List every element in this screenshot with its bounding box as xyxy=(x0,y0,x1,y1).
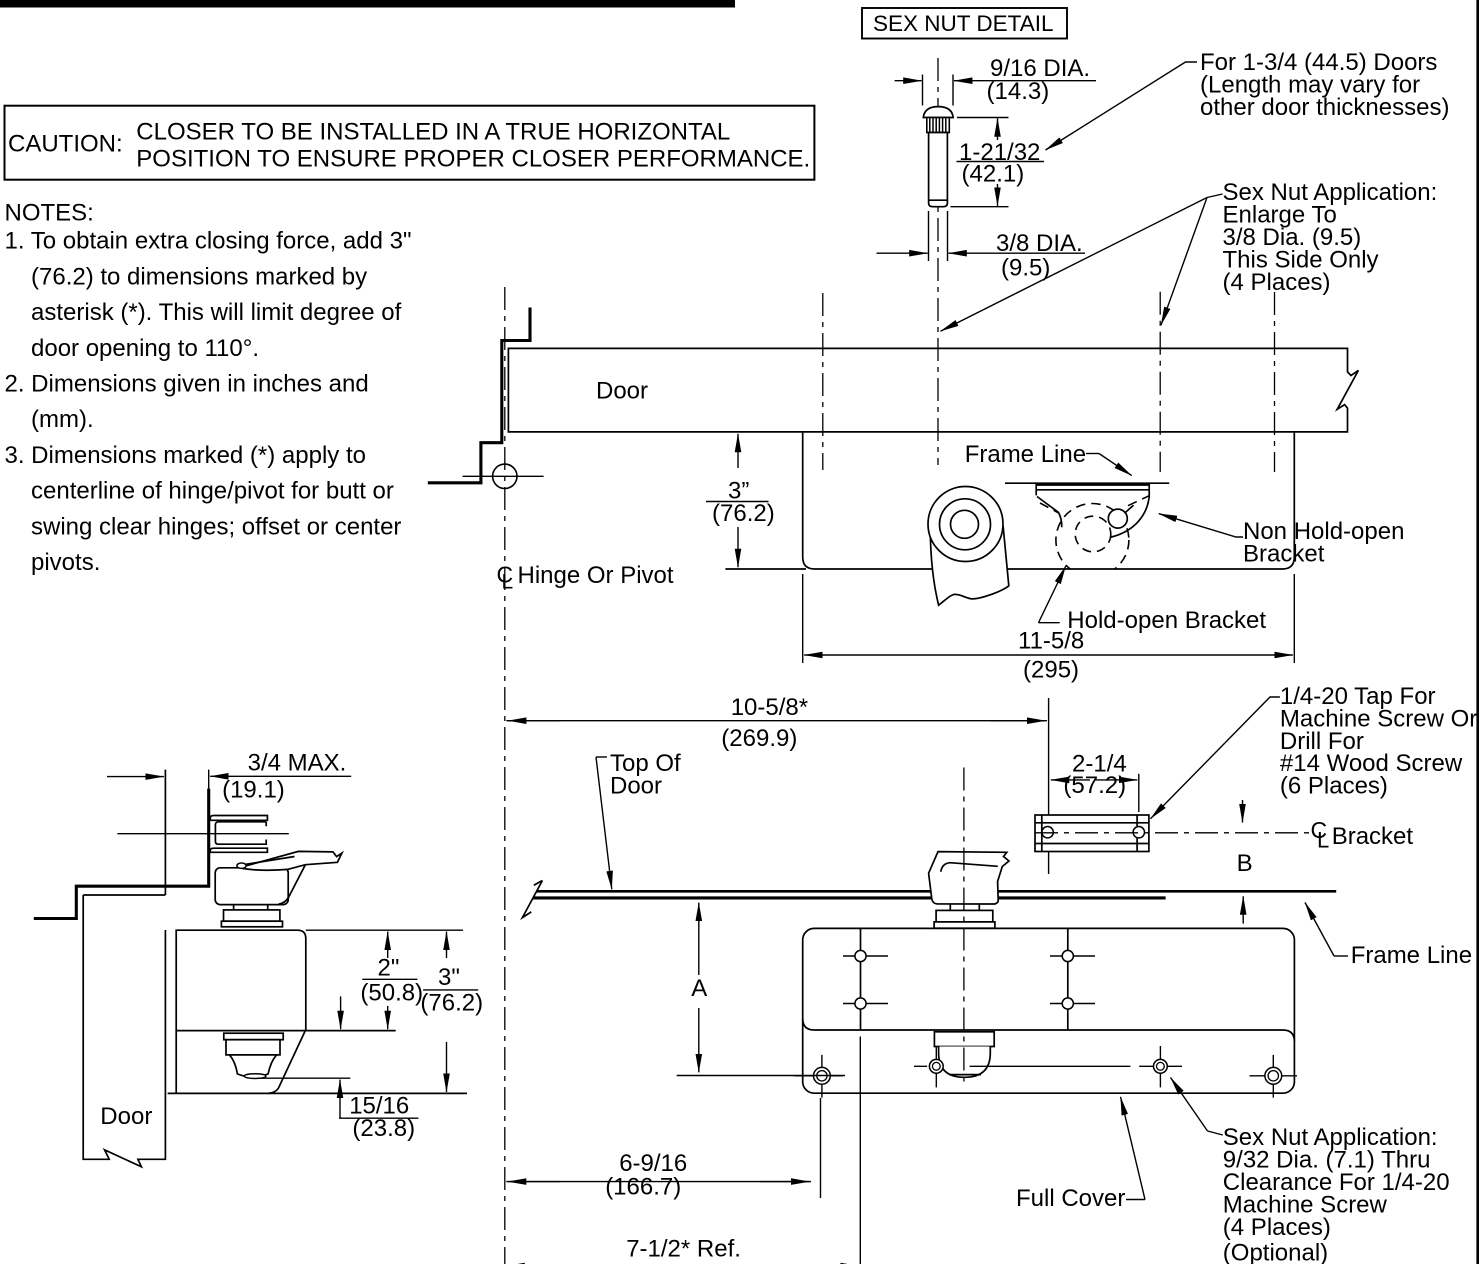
svg-text:7-1/2* Ref.: 7-1/2* Ref. xyxy=(626,1236,741,1263)
dim 15/16 bottom arrow xyxy=(339,1080,341,1119)
svg-text:(166.7): (166.7) xyxy=(605,1174,681,1201)
hold-open ghost small dashed circle xyxy=(1075,516,1111,552)
svg-text:11-5/8: 11-5/8 xyxy=(1018,628,1084,655)
svg-text:swing clear hinges; offset or: swing clear hinges; offset or center xyxy=(31,513,401,540)
top header black bar xyxy=(0,0,735,8)
dim 1-21/32 top arrow xyxy=(997,118,999,140)
hold-open ghost dashed diagonal xyxy=(1040,503,1059,513)
svg-text:(9.5): (9.5) xyxy=(1001,255,1050,282)
svg-text:Frame Line: Frame Line xyxy=(1351,942,1472,969)
top of door leader arrow xyxy=(596,757,612,889)
svg-text:A: A xyxy=(691,975,707,1002)
svg-text:Door: Door xyxy=(596,378,648,405)
screw inner left vertical cross xyxy=(935,1047,937,1087)
svg-text:2": 2" xyxy=(378,955,400,982)
svg-text:asterisk (*). This will limit: asterisk (*). This will limit degree of xyxy=(31,299,402,326)
hold-open leader arrow xyxy=(1039,566,1066,623)
side door outline xyxy=(83,770,165,1167)
bracket flange thick top xyxy=(1036,483,1149,486)
cylinder scroll xyxy=(930,527,1009,605)
svg-text:L: L xyxy=(502,571,514,594)
side spindle flange xyxy=(221,921,282,927)
leader sex nut app dash xyxy=(1207,194,1223,198)
dim 3/8 left arrow xyxy=(877,252,928,254)
tap leader arrow xyxy=(1151,697,1280,819)
top of door line xyxy=(533,896,1166,899)
side arm shoe xyxy=(215,868,288,905)
bracket hole right xyxy=(1133,827,1144,838)
screw hole top right 1 cross xyxy=(1050,955,1095,957)
dim 11-5/8 line xyxy=(860,654,1240,656)
dim 1-21/32 extension lines xyxy=(951,118,1009,207)
dim B bottom arrow xyxy=(1242,896,1244,923)
svg-text:Door: Door xyxy=(610,773,662,800)
dim 2-1/4 left arrow xyxy=(1051,779,1090,781)
dim 2-1/4 right arrow xyxy=(1095,779,1137,781)
dim 3 inch underline xyxy=(706,501,769,503)
screw outer right cross xyxy=(1250,1055,1298,1098)
svg-text:Bracket: Bracket xyxy=(1332,823,1414,850)
full cover leader arrow xyxy=(1121,1097,1146,1200)
svg-text:(76.2) to dimensions marked by: (76.2) to dimensions marked by xyxy=(31,263,367,290)
svg-text:POSITION TO ENSURE PROPER CLOS: POSITION TO ENSURE PROPER CLOSER PERFORM… xyxy=(136,145,810,172)
closer plate top view xyxy=(803,431,1295,569)
dim 11-5/8 right arrow xyxy=(1240,654,1293,656)
bracket roller link line xyxy=(1125,505,1134,513)
pinion dome xyxy=(939,1047,991,1078)
pinion dome inner line xyxy=(949,1074,981,1076)
svg-text:3. Dimensions marked (*) apply: 3. Dimensions marked (*) apply to xyxy=(5,442,366,469)
side cap cone xyxy=(230,1055,277,1077)
screw hole top right 2 cross xyxy=(1050,1003,1095,1005)
screw outer right inner circle xyxy=(1268,1071,1278,1081)
svg-text:B: B xyxy=(1237,850,1253,877)
dim 15/16 top arrow xyxy=(340,996,342,1029)
dim 2 inch underline xyxy=(362,978,417,980)
mounting hole centerline 1 xyxy=(822,293,824,470)
sex nut centerline xyxy=(937,58,939,465)
screw hole top right 2 xyxy=(1062,998,1073,1009)
pinion lower flange xyxy=(934,1032,994,1047)
side clip top tooth xyxy=(210,816,267,821)
sex nut app bottom leader arrow xyxy=(1171,1078,1208,1132)
bracket left hook arc xyxy=(1058,512,1061,527)
svg-text:Full Cover: Full Cover xyxy=(1016,1185,1125,1212)
mounting hole centerline 3 xyxy=(1159,292,1161,472)
dim 2 inch bottom arrow xyxy=(387,1006,389,1029)
svg-text:other door thicknesses): other door thicknesses) xyxy=(1200,94,1449,121)
leader sex nut app arrow 1 xyxy=(941,198,1208,332)
dim 3/4 frame extension xyxy=(208,770,210,789)
side body lower slant xyxy=(268,1031,305,1094)
dim 1-21/32 underline xyxy=(957,161,1045,163)
side body outline xyxy=(176,930,306,1030)
svg-text:Frame Line: Frame Line xyxy=(965,441,1086,468)
pinion neck xyxy=(950,904,979,910)
screw outer right outer circle xyxy=(1265,1067,1282,1084)
door top view outline xyxy=(508,348,1358,432)
hinge pivot centerline xyxy=(504,287,506,1264)
svg-text:(76.2): (76.2) xyxy=(712,500,775,527)
page right border line xyxy=(1476,0,1479,1264)
plate bottom left extension line xyxy=(725,568,806,570)
screw hole top right 1 xyxy=(1062,950,1073,961)
side clip bottom tooth xyxy=(210,848,267,852)
dim 11-5/8 extension left xyxy=(802,574,804,663)
screw outer left inner circle xyxy=(817,1071,827,1081)
side clip centerline xyxy=(117,833,288,835)
dim 6-9/16 right arrow xyxy=(760,1181,810,1183)
svg-text:1. To obtain extra closing for: 1. To obtain extra closing force, add 3" xyxy=(5,228,412,255)
svg-text:3": 3" xyxy=(438,964,460,991)
dim 6-9/16 left arrow xyxy=(508,1181,560,1183)
side cap tier xyxy=(226,1040,280,1055)
frame line bottom leader arrow xyxy=(1305,903,1334,957)
svg-text:(295): (295) xyxy=(1023,657,1079,684)
hold-open ghost dashed arc top right xyxy=(1128,496,1149,506)
dim 15/16 underline xyxy=(339,1117,418,1119)
pinion flange xyxy=(934,922,995,928)
sex nut app bottom leader dash xyxy=(1208,1131,1223,1135)
mounting hole centerline 4 xyxy=(1274,292,1276,472)
side cap nub xyxy=(244,1074,266,1079)
bracket centerline dashdot xyxy=(1035,832,1312,834)
svg-text:Bracket: Bracket xyxy=(1243,541,1325,568)
hinge circle xyxy=(493,464,517,488)
dim 3 inch top arrow xyxy=(737,434,739,468)
svg-text:2. Dimensions given in inches: 2. Dimensions given in inches and xyxy=(5,371,369,398)
frame line segment xyxy=(1005,482,1169,484)
svg-text:(23.8): (23.8) xyxy=(352,1115,415,1142)
dim 10-5/8 left arrow xyxy=(508,720,560,722)
screw inner right outer circle xyxy=(1154,1059,1168,1073)
dim 3/8 extension lines xyxy=(929,211,948,261)
dim 6-9/16 line xyxy=(506,1181,811,1183)
mounting bracket outline xyxy=(1035,815,1149,852)
svg-text:(19.1): (19.1) xyxy=(222,777,285,804)
frame line leader dash xyxy=(1086,453,1099,455)
screw inner right inner circle xyxy=(1157,1062,1165,1070)
screw inner left inner circle xyxy=(932,1062,940,1070)
svg-text:(4 Places): (4 Places) xyxy=(1223,1214,1331,1241)
frame line break symbol xyxy=(522,881,542,918)
bracket left diagonal xyxy=(1037,497,1058,513)
svg-text:CLOSER TO BE INSTALLED IN A TR: CLOSER TO BE INSTALLED IN A TRUE HORIZON… xyxy=(136,118,730,145)
dim 3 inch side top arrow xyxy=(446,932,448,958)
jamb profile xyxy=(428,308,530,483)
bracket flange bar xyxy=(1036,483,1149,497)
dim 3/4 left arrow xyxy=(107,776,164,778)
svg-text:NOTES:: NOTES: xyxy=(5,200,94,227)
svg-text:Door: Door xyxy=(100,1103,152,1130)
screw hole top left 2 cross xyxy=(843,1003,888,1005)
svg-text:(269.9): (269.9) xyxy=(721,725,797,752)
svg-text:CAUTION:: CAUTION: xyxy=(8,131,123,158)
sex nut shank xyxy=(929,133,948,207)
dim 10-5/8 extension right xyxy=(1048,698,1050,874)
svg-text:SEX NUT DETAIL: SEX NUT DETAIL xyxy=(873,11,1053,36)
sex nut shank chamfer line xyxy=(929,199,948,201)
svg-text:(42.1): (42.1) xyxy=(962,161,1025,188)
sex nut detail title box xyxy=(862,8,1067,39)
cylinder middle circle xyxy=(940,499,991,550)
svg-text:(57.2): (57.2) xyxy=(1063,772,1126,799)
svg-text:pivots.: pivots. xyxy=(31,549,100,576)
side arm inner line xyxy=(245,857,295,865)
dim 3 inch side underline xyxy=(423,989,478,991)
dim 9/16 extension lines xyxy=(923,75,954,106)
svg-text:(mm).: (mm). xyxy=(31,406,94,433)
closer cover outer outline xyxy=(803,928,1295,1093)
full cover leader dash xyxy=(1126,1199,1145,1201)
frame line bottom view xyxy=(537,890,1337,893)
dim 10-5/8 line xyxy=(506,720,1047,722)
svg-text:(6 Places): (6 Places) xyxy=(1280,773,1388,800)
side arm pivot nub xyxy=(237,863,246,868)
leader sex nut app arrow 2 xyxy=(1161,198,1207,326)
svg-text:(50.8): (50.8) xyxy=(360,980,423,1007)
bracket hole left xyxy=(1042,827,1053,838)
mounting bracket inner bottom line xyxy=(1035,843,1149,845)
side body bottom line xyxy=(168,1092,467,1094)
frame line leader arrow xyxy=(1099,454,1132,476)
screw hole top left 2 xyxy=(855,998,866,1009)
side arm body xyxy=(241,851,342,870)
mounting bracket inner left line xyxy=(1041,815,1043,852)
svg-text:(76.2): (76.2) xyxy=(420,990,483,1017)
dim A bottom reference line xyxy=(677,1075,845,1077)
screw hole top left 1 cross xyxy=(843,955,888,957)
svg-text:(Optional): (Optional) xyxy=(1223,1240,1328,1264)
dim A top arrow xyxy=(698,903,700,975)
svg-text:(14.3): (14.3) xyxy=(987,78,1050,105)
dim 10-5/8 right arrow xyxy=(990,720,1046,722)
cover section line left xyxy=(860,928,862,1030)
dim B top arrow xyxy=(1242,800,1244,823)
dim 3/8 right arrow line xyxy=(948,252,1085,254)
screw hole top left 1 xyxy=(855,950,866,961)
dim 3/4 right arrow line xyxy=(210,775,351,777)
screw outer left outer circle xyxy=(814,1067,831,1084)
side frame profile xyxy=(34,789,209,919)
pinion shoe bottom view xyxy=(929,852,1009,904)
extension line below cover left xyxy=(859,1037,861,1264)
svg-text:L: L xyxy=(1317,828,1329,853)
caution box xyxy=(5,106,815,180)
dim 1-21/32 bottom arrow xyxy=(997,184,999,206)
side arm elbow slope xyxy=(279,865,306,905)
arm centerline bottom view xyxy=(963,768,965,1086)
leader for doors arrow xyxy=(1046,62,1198,150)
pinion block xyxy=(936,910,993,922)
mounting bracket inner right line xyxy=(1136,815,1138,852)
cylinder outer circle xyxy=(928,487,1003,562)
side cap flange xyxy=(224,1033,283,1040)
hold-open leader dash xyxy=(1039,622,1060,624)
side body divider line xyxy=(176,1030,396,1032)
svg-text:(4 Places): (4 Places) xyxy=(1223,269,1331,296)
side spindle block xyxy=(224,910,280,921)
side top reference line xyxy=(306,929,463,931)
sex nut head dome xyxy=(923,107,953,118)
frame line bottom leader dash xyxy=(1334,955,1348,957)
bracket right curve xyxy=(1111,497,1149,537)
dim 3 inch side bottom arrow xyxy=(446,1042,448,1092)
svg-text:3/4 MAX.: 3/4 MAX. xyxy=(248,750,347,777)
dim 9/16 left arrow xyxy=(895,80,922,82)
svg-text:10-5/8*: 10-5/8* xyxy=(731,694,808,721)
svg-text:Hinge Or Pivot: Hinge Or Pivot xyxy=(518,562,674,589)
side clip middle channel xyxy=(215,822,266,844)
screw outer left cross xyxy=(794,1055,843,1098)
svg-text:3/8 DIA.: 3/8 DIA. xyxy=(996,230,1083,257)
sex nut knurl xyxy=(927,118,950,133)
non hold-open leader arrow xyxy=(1159,514,1243,537)
screw inner left outer circle xyxy=(929,1059,943,1073)
dim 2-1/4 extension right xyxy=(1138,774,1140,812)
hold-open ghost large dashed circle xyxy=(1056,504,1129,577)
side dome reference line xyxy=(257,1077,350,1079)
svg-text:centerline of hinge/pivot for: centerline of hinge/pivot for butt or xyxy=(31,478,394,505)
dim 3 inch bottom arrow xyxy=(737,527,739,567)
dim 9/16 right arrow line xyxy=(954,80,1096,82)
extension line 6-9/16 right xyxy=(820,1098,822,1198)
svg-text:Hold-open Bracket: Hold-open Bracket xyxy=(1067,607,1266,634)
dim 2 inch top arrow xyxy=(387,932,389,958)
sex nut knurl hatching xyxy=(930,118,946,133)
bracket roller circle xyxy=(1108,509,1127,528)
side spindle neck xyxy=(234,905,268,910)
hinge cross line xyxy=(463,475,544,477)
pinion arm inner line xyxy=(941,863,998,872)
top of door leader dash xyxy=(596,756,607,758)
cylinder inner circle xyxy=(951,510,979,538)
closer cover bottom edge xyxy=(803,1019,1295,1042)
dim A bottom arrow xyxy=(698,1008,700,1072)
dim 11-5/8 extension right xyxy=(1293,574,1295,663)
svg-text:door opening to 110°.: door opening to 110°. xyxy=(31,335,259,362)
hold open track line xyxy=(914,1065,1182,1067)
side body left lower edge xyxy=(175,1031,177,1094)
mounting bracket inner top line xyxy=(1035,822,1149,824)
cover section line right xyxy=(1067,928,1069,1030)
dim 11-5/8 left arrow xyxy=(804,654,860,656)
screw inner right vertical cross xyxy=(1159,1046,1161,1087)
